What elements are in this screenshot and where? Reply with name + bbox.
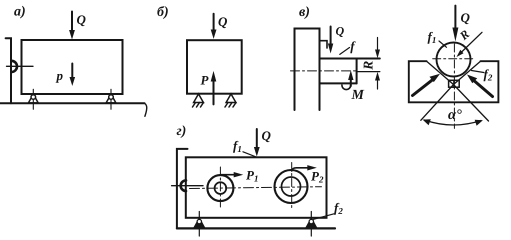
- vertical centerline vblock: [453, 44, 455, 128]
- vertex relief square vblock: [449, 80, 460, 87]
- pin symbol scheme g: [172, 180, 203, 191]
- svg-text:R: R: [360, 61, 375, 71]
- svg-text:а): а): [14, 5, 26, 20]
- left vertical centerline scheme g: [219, 167, 221, 210]
- pin symbol scheme a: [7, 61, 34, 72]
- svg-text:г): г): [177, 124, 187, 139]
- svg-text:Q: Q: [461, 10, 471, 25]
- svg-text:α°: α°: [448, 107, 462, 123]
- force p arrow scheme a: [70, 64, 76, 87]
- force P1 arrow scheme g: [220, 172, 243, 177]
- workpiece box scheme g: [186, 157, 327, 218]
- svg-text:Q: Q: [336, 24, 345, 38]
- left contact force arrow vblock: [413, 74, 441, 96]
- dimension arrows scheme v: [375, 38, 380, 90]
- horizontal centerline vblock: [433, 58, 474, 60]
- force Q arrow scheme a: [69, 12, 75, 40]
- svg-text:Q: Q: [218, 14, 228, 29]
- svg-text:P: P: [201, 73, 210, 88]
- svg-text:б): б): [157, 5, 169, 20]
- workpiece box scheme a: [22, 40, 123, 94]
- angle arc arrowheads vblock: [423, 119, 431, 125]
- workpiece circle vblock: [437, 43, 471, 77]
- wall bracket scheme a: [6, 38, 11, 103]
- left support scheme a: [28, 89, 38, 109]
- right hole outer scheme g: [275, 170, 308, 203]
- chuck body scheme v: [295, 29, 320, 111]
- leader f2 scheme g: [314, 214, 335, 220]
- left hole outer scheme g: [207, 175, 233, 201]
- moment M arrow scheme v: [342, 70, 354, 89]
- right hatched support scheme b: [225, 94, 236, 107]
- force Q arrow scheme v: [328, 27, 333, 54]
- leader f scheme v: [340, 48, 350, 55]
- angle arc vblock: [425, 120, 482, 125]
- force P2 arrow scheme g: [292, 165, 317, 171]
- left hatched support scheme b: [193, 94, 204, 107]
- svg-text:Q: Q: [77, 12, 87, 27]
- centerline extension scheme v: [357, 71, 380, 73]
- svg-text:p: p: [56, 68, 64, 83]
- left support scheme g: [194, 212, 204, 237]
- vblock V faces and angle extensions: [421, 61, 489, 121]
- clamp step scheme v: [320, 41, 328, 48]
- leader f1 vblock: [439, 41, 447, 47]
- vblock body: [409, 61, 499, 102]
- ground hook scheme a: [145, 103, 147, 116]
- horizontal centerline scheme g: [190, 187, 322, 189]
- right support scheme a: [106, 89, 116, 109]
- ground line scheme a: [0, 102, 145, 104]
- ground line scheme g: [177, 227, 335, 229]
- force P arrow scheme b: [211, 71, 217, 105]
- centerline scheme v: [291, 70, 357, 72]
- wall bracket scheme g: [177, 149, 188, 229]
- svg-text:Q: Q: [262, 128, 272, 143]
- right support scheme g: [306, 212, 316, 237]
- workpiece box scheme b: [187, 40, 242, 93]
- left hole inner scheme g: [215, 182, 227, 194]
- force Q arrow vblock: [452, 6, 458, 42]
- force Q arrow scheme b: [211, 14, 217, 39]
- right vertical centerline scheme g: [291, 163, 293, 210]
- leader f2 vblock: [472, 71, 484, 73]
- svg-text:M: M: [351, 88, 365, 103]
- workpiece bar scheme v: [320, 59, 380, 84]
- right contact force arrow vblock: [467, 75, 493, 97]
- right hole inner scheme g: [282, 177, 301, 196]
- radius R leader vblock: [457, 32, 483, 57]
- leader f1 scheme g: [243, 152, 256, 157]
- force Q arrow scheme g: [254, 129, 260, 157]
- svg-text:в): в): [299, 5, 310, 20]
